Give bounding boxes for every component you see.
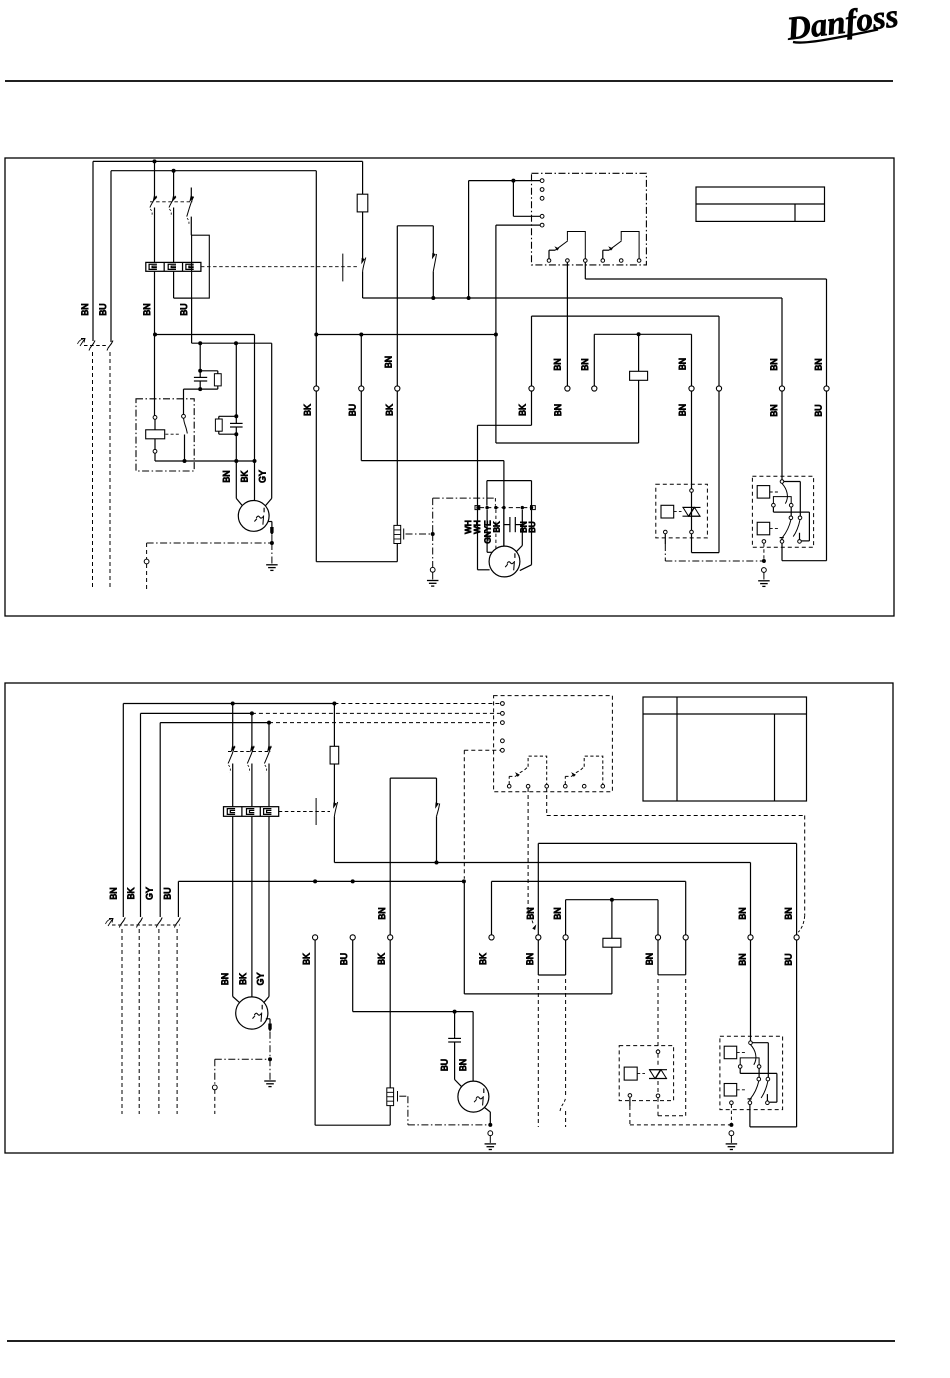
- svg-text:BN: BN: [222, 470, 232, 482]
- svg-text:BN: BN: [738, 907, 748, 919]
- svg-text:BN: BN: [580, 358, 590, 370]
- svg-text:GY: GY: [256, 973, 266, 986]
- svg-text:Danfoss: Danfoss: [784, 0, 900, 48]
- svg-text:BN: BN: [769, 404, 779, 416]
- svg-text:BK: BK: [126, 888, 136, 900]
- svg-text:BN: BN: [678, 404, 688, 416]
- svg-text:BK: BK: [493, 521, 502, 532]
- svg-text:BU: BU: [179, 303, 189, 315]
- svg-text:BN: BN: [458, 1059, 468, 1071]
- svg-text:BK: BK: [478, 953, 488, 965]
- svg-text:WH: WH: [464, 520, 473, 534]
- svg-text:BU: BU: [440, 1059, 450, 1071]
- svg-text:BN: BN: [769, 358, 779, 370]
- svg-text:BK: BK: [384, 404, 394, 416]
- svg-text:BN: BN: [645, 953, 655, 965]
- svg-text:GNYE: GNYE: [484, 520, 493, 544]
- svg-text:BN: BN: [525, 953, 535, 965]
- svg-text:BN: BN: [814, 358, 824, 370]
- svg-text:BN: BN: [553, 358, 563, 370]
- svg-text:BU: BU: [528, 521, 537, 532]
- svg-text:BK: BK: [518, 404, 528, 416]
- svg-text:BK: BK: [377, 953, 387, 965]
- svg-text:BU: BU: [784, 953, 794, 965]
- svg-text:BN: BN: [553, 404, 563, 416]
- svg-text:GY: GY: [258, 470, 268, 483]
- svg-text:BN: BN: [80, 303, 90, 315]
- svg-text:BK: BK: [302, 953, 312, 965]
- svg-text:BU: BU: [814, 404, 824, 416]
- svg-text:BN: BN: [553, 907, 563, 919]
- svg-text:WH: WH: [473, 520, 482, 534]
- svg-text:BK: BK: [303, 404, 313, 416]
- svg-text:BN: BN: [784, 907, 794, 919]
- svg-text:BU: BU: [339, 953, 349, 965]
- svg-text:BU: BU: [348, 404, 358, 416]
- svg-text:BN: BN: [526, 907, 536, 919]
- svg-text:BN: BN: [220, 973, 230, 985]
- svg-text:BN: BN: [142, 303, 152, 315]
- svg-text:BN: BN: [109, 887, 119, 899]
- svg-text:BU: BU: [98, 303, 108, 315]
- svg-text:GY: GY: [145, 887, 155, 900]
- svg-text:BK: BK: [238, 973, 248, 985]
- svg-text:BN: BN: [678, 358, 688, 370]
- svg-text:BU: BU: [163, 887, 173, 899]
- svg-text:BK: BK: [240, 471, 250, 483]
- svg-text:BN: BN: [377, 907, 387, 919]
- svg-text:BN: BN: [738, 953, 748, 965]
- svg-text:BN: BN: [384, 356, 394, 368]
